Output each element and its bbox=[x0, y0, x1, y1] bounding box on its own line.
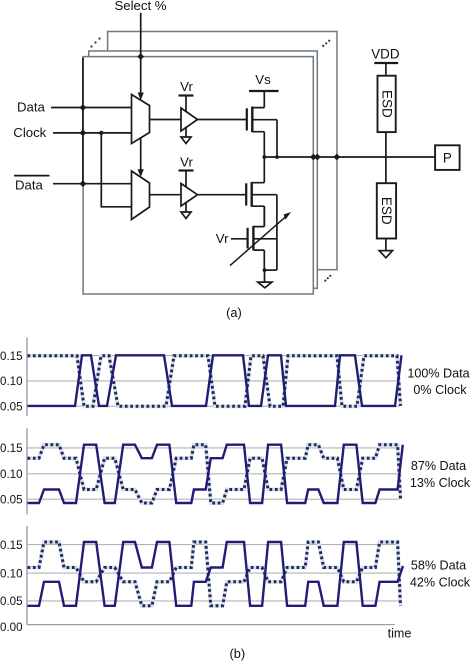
svg-text:0.15: 0.15 bbox=[0, 350, 23, 363]
panel 1 y-axis bbox=[26, 338, 28, 417]
ellipsis dots top-left bbox=[90, 37, 100, 47]
wire buffer1 ground stem bbox=[185, 127, 187, 138]
wire Vr to Q3 gate bbox=[231, 238, 248, 240]
cell box middle bbox=[89, 51, 318, 288]
svg-text:0.15: 0.15 bbox=[0, 442, 23, 455]
transistor Q1 bbox=[246, 108, 248, 130]
svg-text:0% Clock: 0% Clock bbox=[413, 383, 467, 397]
junction Data-bar bbox=[80, 180, 87, 187]
svg-text:Vr: Vr bbox=[180, 155, 193, 170]
ellipsis dots bottom-right bbox=[324, 275, 331, 282]
panel 3 dotted complementary waveform bbox=[28, 542, 401, 606]
supply bar Vs bbox=[249, 90, 279, 92]
supply bar VDD bbox=[374, 62, 398, 64]
svg-text:0.10: 0.10 bbox=[0, 567, 23, 580]
wire input bus vertical bbox=[82, 58, 84, 184]
label Clock bbox=[13, 125, 46, 140]
wire mux2 output bbox=[150, 194, 182, 196]
svg-text:Vs: Vs bbox=[255, 72, 271, 87]
panel 2 tick labels bbox=[0, 442, 23, 506]
mux M1 bbox=[132, 95, 150, 144]
ellipsis dots top-right bbox=[322, 40, 330, 47]
wire Vr2 stem bbox=[185, 171, 187, 188]
wire Q1 drain to Vs bbox=[263, 91, 265, 108]
ground ESD bbox=[379, 251, 392, 258]
label Vs bbox=[255, 72, 271, 87]
junction Data bbox=[80, 104, 87, 111]
svg-text:87% Data: 87% Data bbox=[411, 459, 466, 473]
panel 1 gridlines bbox=[27, 356, 400, 407]
junction node at front box edge bbox=[310, 154, 317, 161]
junction source-bulk bbox=[263, 268, 267, 272]
panel 2 solid waveform bbox=[28, 445, 403, 503]
svg-text:Vr: Vr bbox=[216, 231, 229, 246]
ground buffer1 bbox=[181, 137, 191, 144]
svg-text:Data: Data bbox=[15, 177, 44, 192]
label Vr transistor Q3 bbox=[216, 231, 229, 246]
wire buffer1 to Q1 gate bbox=[198, 119, 247, 121]
junction node at bulk rail bbox=[275, 155, 279, 159]
supply bar Vr2 bbox=[179, 169, 194, 171]
svg-text:0.05: 0.05 bbox=[0, 595, 23, 608]
svg-text:0.05: 0.05 bbox=[0, 493, 23, 506]
junction node at back box edge bbox=[333, 154, 340, 161]
label Data-bar bbox=[15, 177, 44, 192]
svg-text:0.10: 0.10 bbox=[0, 375, 23, 388]
wire Q1 bulk to node bbox=[276, 120, 278, 157]
wire mux1 output bbox=[150, 119, 182, 121]
panel 2 dotted clock-mix waveform halo bbox=[28, 445, 401, 503]
panel 3 solid waveform bbox=[28, 542, 404, 606]
ground transistor stack bbox=[258, 282, 272, 288]
panel 2 dotted complementary waveform bbox=[28, 445, 401, 503]
pad box P bbox=[435, 145, 460, 170]
label Data bbox=[17, 100, 46, 115]
ESD block 2 bbox=[377, 183, 396, 238]
transistor Q3 (variable) bbox=[247, 228, 249, 249]
wire select mux1-to-mux2 bbox=[140, 138, 142, 171]
wire source-bulk link bbox=[264, 269, 277, 271]
svg-text:ESD: ESD bbox=[379, 197, 394, 225]
svg-text:Clock: Clock bbox=[13, 125, 46, 140]
overline of Data-bar bbox=[14, 175, 50, 177]
junction node at Q1 source bbox=[262, 155, 266, 159]
wire Q3 source down bbox=[263, 250, 265, 270]
panel 2 gridlines bbox=[27, 448, 400, 499]
supply bar Vr1 bbox=[179, 94, 194, 96]
ESD block 1 bbox=[378, 76, 396, 132]
wire buffer2 to Q2 gate bbox=[198, 194, 247, 196]
wire Data input bbox=[51, 107, 132, 109]
svg-text:ESD: ESD bbox=[379, 90, 394, 118]
svg-text:VDD: VDD bbox=[371, 47, 400, 62]
junction node at middle box edge bbox=[314, 154, 321, 161]
svg-text:13% Clock: 13% Clock bbox=[410, 476, 471, 490]
wire Q2 drain to node bbox=[263, 157, 265, 183]
svg-text:0.05: 0.05 bbox=[0, 400, 23, 413]
arrowhead variable arrow bbox=[284, 212, 291, 220]
buffer U2 bbox=[181, 184, 198, 207]
panel 3 gridlines bbox=[27, 545, 400, 601]
node output line bbox=[264, 156, 435, 158]
transistor Q2 bbox=[245, 183, 247, 205]
svg-text:Select %: Select % bbox=[114, 0, 166, 13]
svg-text:0.10: 0.10 bbox=[0, 468, 23, 481]
svg-text:Data: Data bbox=[17, 100, 46, 115]
wire buffer2 ground stem bbox=[185, 202, 187, 212]
svg-text:42% Clock: 42% Clock bbox=[410, 576, 471, 590]
wire Q1 source to node bbox=[263, 132, 265, 157]
panel 3 dotted clock-mix waveform halo bbox=[28, 542, 401, 606]
svg-text:58% Data: 58% Data bbox=[411, 558, 466, 572]
wire ESD2 to ground bbox=[385, 239, 387, 251]
label VDD bbox=[371, 47, 400, 62]
svg-text:(b): (b) bbox=[229, 646, 245, 661]
junction clock branch bbox=[99, 131, 103, 135]
wire Data-bar input bbox=[53, 183, 132, 185]
label Select % bbox=[114, 0, 166, 13]
junction select at cell edge bbox=[137, 53, 144, 60]
svg-text:(a): (a) bbox=[226, 305, 242, 320]
cell box back (repeated slice) bbox=[108, 32, 337, 270]
variable arrow of Q3 bbox=[230, 216, 286, 265]
junction Clock bbox=[80, 130, 87, 137]
buffer U1 bbox=[181, 108, 198, 131]
wire clock branch down bbox=[101, 133, 131, 207]
svg-text:Vr: Vr bbox=[180, 79, 193, 94]
svg-text:0.15: 0.15 bbox=[0, 539, 23, 552]
wire ground stem bbox=[264, 270, 266, 282]
wire VDD to ESD1 bbox=[385, 63, 387, 76]
panel 1 tick labels bbox=[0, 350, 23, 414]
wire ESD1 to node bbox=[385, 132, 387, 157]
panel 2 y-axis bbox=[26, 428, 28, 514]
arrowhead select into mux2 bbox=[138, 169, 144, 177]
wire node to ESD2 bbox=[385, 157, 387, 183]
wire Vr1 stem bbox=[185, 96, 187, 113]
svg-text:0.00: 0.00 bbox=[0, 621, 23, 634]
cell box front bbox=[83, 57, 313, 294]
panel 1 dotted clock-mix waveform halo bbox=[28, 356, 401, 407]
svg-text:P: P bbox=[443, 150, 452, 165]
mux M2 bbox=[132, 171, 150, 220]
wire Clock input bbox=[53, 132, 132, 134]
ground buffer2 bbox=[181, 212, 191, 219]
panel 3 y-axis bbox=[26, 526, 28, 625]
svg-text:time: time bbox=[388, 627, 412, 641]
panel 3 tick labels bbox=[0, 539, 23, 634]
panel 1 solid waveform bbox=[28, 355, 402, 406]
label Vr buffer1 bbox=[180, 79, 193, 94]
panel 3 x-axis (0.00) bbox=[27, 624, 395, 626]
label Vr buffer2 bbox=[180, 155, 193, 170]
wire select vertical bbox=[140, 13, 142, 94]
wire Q3 drain up bbox=[263, 206, 265, 226]
wire Q2 source to Q3 drain bbox=[263, 206, 265, 226]
panel 1 dotted complementary waveform bbox=[28, 356, 401, 407]
svg-text:100% Data: 100% Data bbox=[407, 367, 469, 381]
arrowhead select into mux1 bbox=[138, 93, 144, 101]
wire Q2/Q3 bulk rail bbox=[276, 195, 278, 270]
